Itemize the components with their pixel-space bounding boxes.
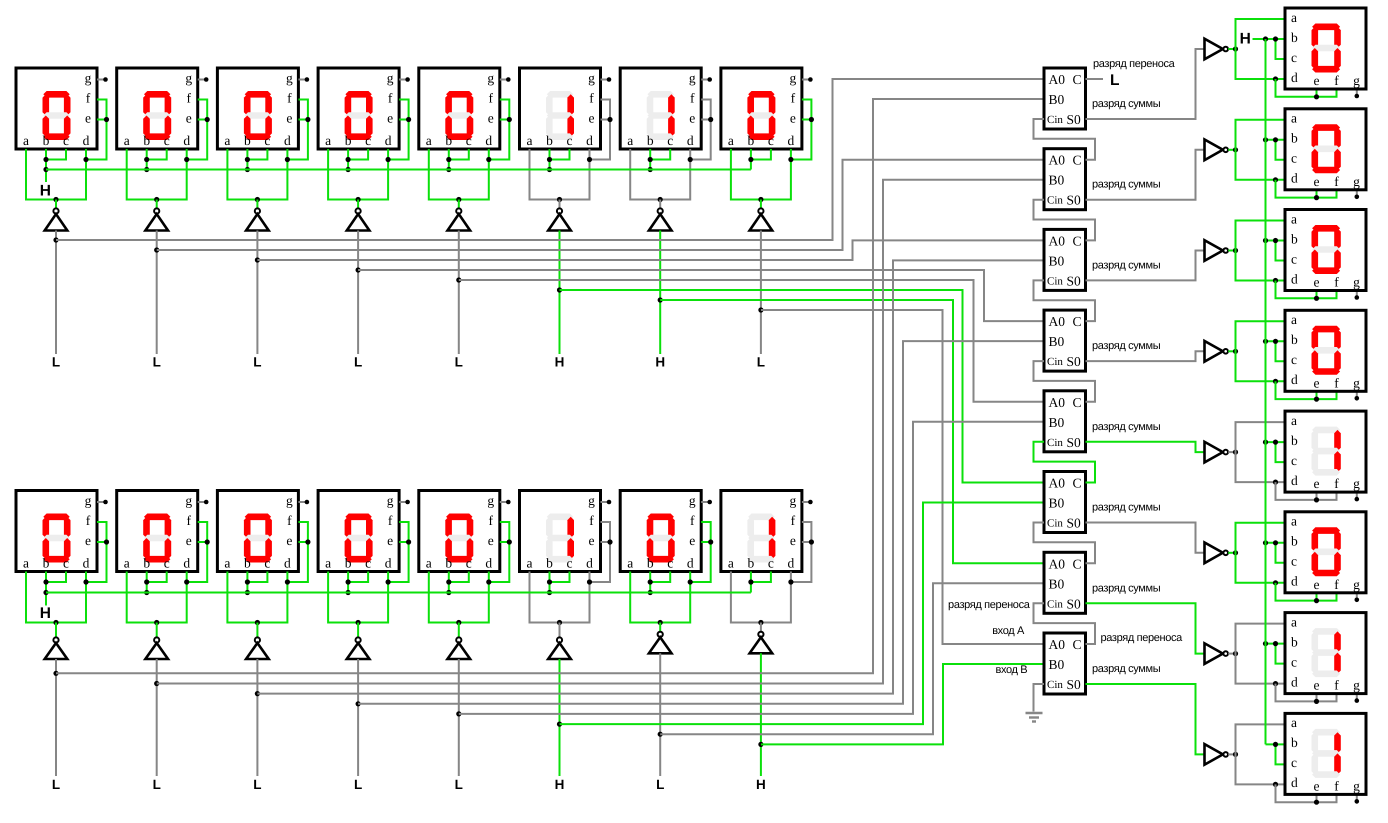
svg-text:g: g: [286, 71, 293, 86]
svg-text:разряд переноса: разряд переноса: [1093, 58, 1176, 70]
7-segment display S7: [1285, 613, 1366, 694]
wire e-f branch S6: [1276, 583, 1337, 601]
wire c branch S8: [1276, 744, 1286, 764]
node bus A4: [346, 167, 351, 172]
adder U8: [1044, 633, 1086, 694]
svg-text:B0: B0: [1049, 657, 1065, 672]
svg-text:f: f: [589, 513, 594, 528]
wire carry C5-Cin4: [1034, 361, 1096, 402]
svg-text:d: d: [788, 133, 795, 148]
wire carry C2-Cin1: [1034, 119, 1096, 160]
node rail A6: [557, 197, 562, 202]
wire e A3: [298, 119, 308, 121]
input label B3: [253, 777, 261, 792]
wire f A2: [187, 100, 208, 160]
wire e stub S2: [1316, 190, 1318, 198]
svg-text:d: d: [385, 556, 392, 571]
wire f A8: [791, 100, 812, 160]
wire S0-7: [1086, 603, 1205, 653]
svg-text:S0: S0: [1067, 596, 1082, 611]
wire c A8: [751, 149, 771, 160]
svg-text:L: L: [757, 355, 765, 370]
node d-f B3: [285, 579, 290, 584]
svg-text:a: a: [1291, 514, 1297, 529]
wire input B8: [760, 653, 762, 776]
node c-branch S7: [1273, 641, 1278, 646]
svg-text:e: e: [387, 111, 393, 126]
node bus B4: [346, 590, 351, 595]
7-segment display S1: [1285, 8, 1366, 89]
svg-text:e: e: [1314, 778, 1320, 793]
wire f A6: [590, 100, 611, 160]
wire e B8: [802, 541, 812, 543]
inverter BG2: [145, 623, 168, 660]
7-segment display S3: [1285, 210, 1366, 291]
svg-text:L: L: [253, 777, 261, 792]
node b-c A7: [648, 157, 653, 162]
svg-text:e: e: [1314, 678, 1320, 693]
node H trunk S2: [1263, 137, 1268, 142]
input label A2: [153, 355, 161, 370]
node d-f B7: [688, 579, 693, 584]
node c-branch S4: [1273, 339, 1278, 344]
inverter SG6: [1205, 543, 1228, 564]
svg-text:f: f: [1334, 778, 1339, 793]
inverter BG6: [548, 623, 571, 660]
svg-text:c: c: [1291, 755, 1297, 770]
svg-text:f: f: [186, 91, 191, 106]
pin g stub A3: [298, 77, 309, 82]
svg-text:f: f: [86, 91, 91, 106]
node rail B1: [53, 620, 58, 625]
input label A1: [52, 355, 60, 370]
svg-text:S0: S0: [1067, 516, 1082, 531]
node d-f B2: [184, 579, 189, 584]
wire f B8: [791, 522, 812, 582]
node d-f A4: [386, 157, 391, 162]
node tap A2: [154, 247, 159, 252]
wire c branch S7: [1276, 644, 1286, 664]
svg-text:e: e: [286, 111, 292, 126]
svg-text:f: f: [1334, 375, 1339, 390]
svg-text:B0: B0: [1049, 173, 1065, 188]
svg-text:B0: B0: [1049, 496, 1065, 511]
svg-text:H: H: [655, 355, 665, 370]
node e-f A2: [205, 117, 210, 122]
pin g stub A5: [500, 77, 511, 82]
label razryad summy 7: [1092, 582, 1161, 594]
wire b A5: [448, 149, 450, 170]
svg-text:A0: A0: [1049, 476, 1066, 491]
svg-text:e: e: [186, 111, 192, 126]
H constant label right: [1240, 31, 1251, 48]
svg-text:f: f: [791, 91, 796, 106]
input label A3: [253, 355, 261, 370]
svg-text:f: f: [1334, 174, 1339, 189]
svg-text:L: L: [153, 355, 161, 370]
svg-text:g: g: [1353, 778, 1360, 793]
node e-f B7: [708, 539, 713, 544]
pin g stub B8: [802, 500, 813, 505]
svg-text:e: e: [790, 111, 796, 126]
svg-text:a: a: [23, 133, 29, 148]
node rail A7: [658, 197, 663, 202]
pin g stub A1: [97, 77, 108, 82]
wire a A7: [630, 149, 690, 200]
wire S0-8: [1086, 684, 1205, 754]
svg-text:f: f: [589, 91, 594, 106]
node d-f A6: [587, 157, 592, 162]
wire e stub S7: [1316, 694, 1318, 702]
svg-text:d: d: [83, 133, 90, 148]
svg-text:L: L: [52, 355, 60, 370]
pin g stub A8: [802, 77, 813, 82]
label razryad perenosa top: [1093, 58, 1176, 70]
svg-text:L: L: [455, 777, 463, 792]
svg-text:c: c: [667, 556, 673, 571]
node rail A8: [758, 197, 763, 202]
svg-text:g: g: [487, 493, 494, 508]
svg-text:g: g: [487, 71, 494, 86]
7-segment display S4: [1285, 310, 1366, 391]
wire f B6: [590, 522, 611, 582]
pin g stub A7: [701, 77, 712, 82]
node c-branch S5: [1273, 440, 1278, 445]
svg-text:B0: B0: [1049, 92, 1065, 107]
inverter AG8: [750, 200, 773, 231]
7-segment display S8: [1285, 713, 1366, 794]
wire e stub S4: [1316, 391, 1318, 399]
node d-f A7: [688, 157, 693, 162]
svg-text:d: d: [788, 556, 795, 571]
svg-text:b: b: [244, 556, 251, 571]
inverter SG5: [1205, 442, 1228, 463]
wire H bus A: [46, 169, 751, 171]
wire a-d loop S8: [1236, 724, 1286, 784]
svg-text:a: a: [627, 556, 633, 571]
node e-f B5: [507, 539, 512, 544]
svg-text:f: f: [86, 513, 91, 528]
wire carry-out stub: [1086, 78, 1104, 80]
wire c B4: [348, 572, 368, 583]
wire c B5: [449, 572, 469, 583]
node bus B3: [245, 590, 250, 595]
wire b A7: [649, 149, 651, 170]
wire e stub S8: [1316, 794, 1318, 802]
svg-text:g: g: [1353, 275, 1360, 290]
adder U1: [1044, 68, 1086, 129]
node d-branch S2: [1273, 177, 1278, 182]
svg-text:b: b: [445, 556, 452, 571]
svg-text:e: e: [186, 533, 192, 548]
node rail B7: [658, 620, 663, 625]
node e-f B8: [809, 539, 814, 544]
node bus A3: [245, 167, 250, 172]
wire S0-5: [1086, 442, 1205, 452]
svg-text:g: g: [85, 493, 92, 508]
svg-text:c: c: [63, 133, 69, 148]
node H trunk S5: [1263, 440, 1268, 445]
svg-text:e: e: [689, 111, 695, 126]
svg-text:Cin: Cin: [1047, 437, 1063, 449]
svg-text:S0: S0: [1067, 435, 1082, 450]
svg-text:a: a: [224, 133, 230, 148]
inverter SG2: [1205, 140, 1228, 161]
node b-c B5: [446, 579, 451, 584]
svg-text:b: b: [1291, 735, 1298, 750]
svg-text:S0: S0: [1067, 354, 1082, 369]
wire e A2: [198, 119, 208, 121]
svg-text:f: f: [287, 91, 292, 106]
node e-f A7: [708, 117, 713, 122]
node d-f B6: [587, 579, 592, 584]
svg-text:f: f: [690, 91, 695, 106]
wire c B1: [46, 572, 66, 583]
wire e B5: [500, 541, 510, 543]
wire input A5: [458, 231, 460, 355]
node rail B6: [557, 620, 562, 625]
wire a A6: [530, 149, 590, 200]
svg-text:a: a: [1291, 211, 1297, 226]
label razryad summy 2: [1092, 179, 1161, 191]
svg-text:c: c: [567, 133, 573, 148]
svg-text:e: e: [286, 533, 292, 548]
7-segment display B5: [419, 491, 500, 572]
inverter BG8: [750, 623, 773, 654]
label razryad summy 3: [1092, 259, 1161, 271]
wire carry C7-Cin6: [1034, 523, 1096, 564]
svg-text:a: a: [1291, 10, 1297, 25]
7-segment display S6: [1285, 512, 1366, 593]
svg-text:a: a: [1291, 111, 1297, 126]
node rail A2: [154, 197, 159, 202]
pin g stub S4: [1355, 391, 1360, 400]
node tap A6: [557, 287, 562, 292]
svg-text:g: g: [1353, 174, 1360, 189]
ground: [1026, 713, 1043, 722]
wire B-bit4 trunk: [358, 341, 1044, 704]
svg-text:e: e: [1314, 476, 1320, 491]
wire e stub S3: [1316, 291, 1318, 299]
svg-text:H: H: [1240, 31, 1251, 48]
svg-text:f: f: [1334, 73, 1339, 88]
input label A8: [757, 355, 765, 370]
wire input B1: [55, 659, 57, 776]
svg-text:a: a: [426, 133, 432, 148]
7-segment display B1: [16, 491, 97, 572]
input label B8: [756, 777, 766, 792]
node b-c A5: [446, 157, 451, 162]
wire inv-out S6: [1228, 552, 1235, 554]
wire S0-3: [1086, 251, 1205, 281]
pin g stub S2: [1355, 190, 1360, 199]
svg-text:c: c: [365, 133, 371, 148]
svg-text:f: f: [388, 91, 393, 106]
svg-text:g: g: [1353, 577, 1360, 592]
wire c A2: [147, 149, 167, 160]
svg-text:C: C: [1073, 476, 1082, 491]
svg-text:g: g: [85, 71, 92, 86]
label razryad perenosa left: [948, 599, 1031, 611]
svg-text:a: a: [1291, 715, 1297, 730]
node b-c B4: [346, 579, 351, 584]
node tap A8: [758, 307, 763, 312]
svg-text:e: e: [387, 533, 393, 548]
wire f A3: [287, 100, 308, 160]
svg-text:e: e: [589, 533, 595, 548]
svg-text:b: b: [244, 133, 251, 148]
wire b B5: [448, 572, 450, 593]
svg-text:A0: A0: [1049, 395, 1066, 410]
wire a-d loop S3: [1236, 221, 1286, 281]
wire a A2: [127, 149, 187, 200]
node bus A5: [446, 167, 451, 172]
svg-text:d: d: [1291, 70, 1298, 85]
wire f B7: [690, 522, 711, 582]
svg-text:Cin: Cin: [1047, 598, 1063, 610]
node b-c B3: [245, 579, 250, 584]
node e-f A1: [104, 117, 109, 122]
node bus A7: [648, 167, 653, 172]
wire e-f branch S1: [1276, 79, 1337, 97]
7-segment display A2: [117, 68, 198, 149]
wire B-bit0 trunk: [761, 664, 1044, 744]
wire b S5: [1266, 441, 1286, 443]
wire c A3: [247, 149, 267, 160]
wire A-bit6 trunk: [157, 160, 1044, 250]
wire f B3: [287, 522, 308, 582]
inverter SG3: [1205, 240, 1228, 261]
svg-text:c: c: [1291, 453, 1297, 468]
svg-text:разряд суммы: разряд суммы: [1092, 98, 1161, 110]
svg-text:A0: A0: [1049, 314, 1066, 329]
svg-text:b: b: [1291, 534, 1298, 549]
node e-f B1: [104, 539, 109, 544]
svg-text:b: b: [445, 133, 452, 148]
svg-text:a: a: [325, 556, 331, 571]
node e-f A3: [305, 117, 310, 122]
svg-text:B0: B0: [1049, 334, 1065, 349]
svg-text:c: c: [63, 556, 69, 571]
wire e stub S1: [1316, 89, 1318, 97]
wire inv-out S3: [1228, 250, 1235, 252]
svg-text:b: b: [143, 133, 150, 148]
wire input B7: [659, 653, 661, 776]
svg-text:H: H: [555, 355, 565, 370]
node e-f B4: [406, 539, 411, 544]
svg-text:H: H: [555, 777, 565, 792]
wire e-f branch S3: [1276, 281, 1337, 299]
svg-text:a: a: [1291, 614, 1297, 629]
wire a-d loop S2: [1236, 120, 1286, 180]
svg-text:g: g: [185, 71, 192, 86]
svg-text:Cin: Cin: [1047, 679, 1063, 691]
wire a A4: [328, 149, 388, 200]
node inv-out S1: [1233, 46, 1238, 51]
svg-text:g: g: [387, 71, 394, 86]
node H trunk S1: [1263, 36, 1268, 41]
inverter SG8: [1205, 744, 1228, 765]
label razryad summy 4: [1092, 340, 1161, 352]
wire input A1: [55, 231, 57, 355]
node tap B3: [255, 691, 260, 696]
svg-text:d: d: [1291, 674, 1298, 689]
wire e A6: [601, 119, 611, 121]
node bus B7: [648, 590, 653, 595]
svg-text:b: b: [43, 133, 50, 148]
svg-text:разряд переноса: разряд переноса: [1101, 632, 1184, 644]
svg-text:a: a: [728, 133, 734, 148]
wire inv-out S5: [1228, 451, 1235, 453]
svg-text:d: d: [586, 556, 593, 571]
svg-text:c: c: [466, 133, 472, 148]
node H trunk S6: [1263, 540, 1268, 545]
svg-text:b: b: [1291, 634, 1298, 649]
node tap A3: [255, 257, 260, 262]
node b-c A8: [748, 157, 753, 162]
carry-out value label: [1110, 72, 1119, 89]
svg-text:d: d: [1291, 171, 1298, 186]
node tap A7: [658, 297, 663, 302]
wire e A4: [399, 119, 409, 121]
wire c B7: [650, 572, 670, 583]
node H trunk S7: [1263, 641, 1268, 646]
svg-text:c: c: [1291, 352, 1297, 367]
node tap B7: [658, 732, 663, 737]
wire b A6: [549, 149, 551, 170]
svg-text:b: b: [546, 556, 553, 571]
wire a B4: [328, 572, 388, 623]
svg-text:a: a: [325, 133, 331, 148]
node rail B3: [255, 620, 260, 625]
node e S8: [1314, 800, 1319, 805]
svg-text:f: f: [388, 513, 393, 528]
pin g stub S6: [1355, 593, 1360, 602]
node c-branch S2: [1273, 137, 1278, 142]
node e-f B2: [205, 539, 210, 544]
wire e B7: [701, 541, 711, 543]
7-segment display B3: [217, 491, 298, 572]
wire b A2: [146, 149, 148, 170]
svg-text:d: d: [1291, 574, 1298, 589]
wire e-f branch S5: [1276, 482, 1337, 500]
svg-text:d: d: [183, 556, 190, 571]
pin g stub S1: [1355, 89, 1360, 98]
svg-text:a: a: [23, 556, 29, 571]
pin g stub B5: [500, 500, 511, 505]
svg-text:b: b: [546, 133, 553, 148]
wire A-bit4 trunk: [358, 270, 1044, 321]
node d-branch S3: [1273, 278, 1278, 283]
svg-text:d: d: [687, 133, 694, 148]
svg-text:d: d: [284, 133, 291, 148]
wire b S7: [1266, 643, 1286, 645]
wire H bus B: [46, 592, 751, 594]
node inv-out S8: [1233, 752, 1238, 757]
node d-branch S4: [1273, 379, 1278, 384]
wire H trunk right: [1265, 39, 1267, 744]
pin g stub B6: [601, 500, 612, 505]
wire b B3: [246, 572, 248, 593]
wire b B4: [347, 572, 349, 593]
node rail B8: [758, 620, 763, 625]
wire S0-2: [1086, 150, 1205, 200]
wire b S8: [1266, 743, 1286, 745]
svg-text:d: d: [1291, 473, 1298, 488]
node e S1: [1314, 94, 1319, 99]
svg-text:c: c: [567, 556, 573, 571]
adder U2: [1044, 149, 1086, 210]
